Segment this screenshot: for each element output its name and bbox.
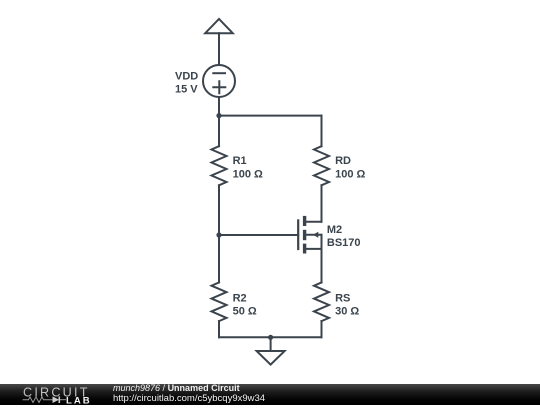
logo resistor squiggle [23,397,53,403]
wire (source bottom to top node) [218,97,220,116]
transistor M2 source lead [306,248,321,250]
wire (VDD arrow to source top) [218,33,220,64]
svg-text:VDD: VDD [175,71,198,83]
resistor R2 body [212,282,227,321]
node (top junction dot) [216,113,221,118]
footer line 1: author / title [113,383,240,393]
resistor RD body [314,146,329,185]
wire (M2 body/source to RS top) [321,235,323,283]
ground symbol [257,351,285,365]
node (ground junction dot) [268,335,273,340]
svg-text:RS: RS [335,292,350,304]
footer line 2: url [113,393,265,404]
transistor M2 channel segment (body) [303,230,306,240]
svg-text:R2: R2 [233,292,247,304]
wire (right rail down to RD top) [321,116,323,147]
resistor RS body [314,282,329,321]
svg-text:50 Ω: 50 Ω [233,305,257,317]
resistor R1 body [212,146,227,185]
transistor M2 gate line [297,219,299,250]
voltage source V1 circle [203,65,235,97]
svg-text:M2: M2 [327,224,342,236]
transistor M2 body arrow head [313,232,318,238]
svg-text:R1: R1 [233,155,247,167]
wire (gate node to M2 gate) [219,234,298,236]
wire (RS bottom to bottom rail) [321,321,323,337]
wire (ground stem) [270,337,272,351]
logo diode arrow [53,396,60,403]
svg-text:15 V: 15 V [175,84,198,96]
wire (R1 bottom to gate node to R2 top) [218,185,220,282]
svg-text:RD: RD [335,155,351,167]
svg-text:BS170: BS170 [327,237,361,249]
transistor M2 channel segment (source) [303,244,306,254]
transistor M2 body lead [306,234,321,236]
power VDD symbol (up arrow) [205,19,233,33]
CircuitLab logo [0,384,100,405]
wire (R2 bottom to bottom rail) [218,321,220,337]
svg-text:30 Ω: 30 Ω [335,305,359,317]
svg-text:LAB: LAB [66,395,92,405]
voltage source V1 minus sign [213,72,225,74]
svg-text:100 Ω: 100 Ω [233,169,263,181]
wire (RD bottom to M2 drain) [321,185,323,221]
footer bar [0,384,540,405]
wire (top rail) [219,115,322,117]
transistor M2 channel segment (drain) [303,216,306,226]
svg-text:100 Ω: 100 Ω [335,169,365,181]
node (gate junction dot) [216,232,221,237]
wire (top node to R1 top) [218,116,220,147]
transistor M2 drain lead [306,221,321,223]
voltage source V1 plus sign [213,81,225,93]
wire (bottom rail) [219,336,322,338]
